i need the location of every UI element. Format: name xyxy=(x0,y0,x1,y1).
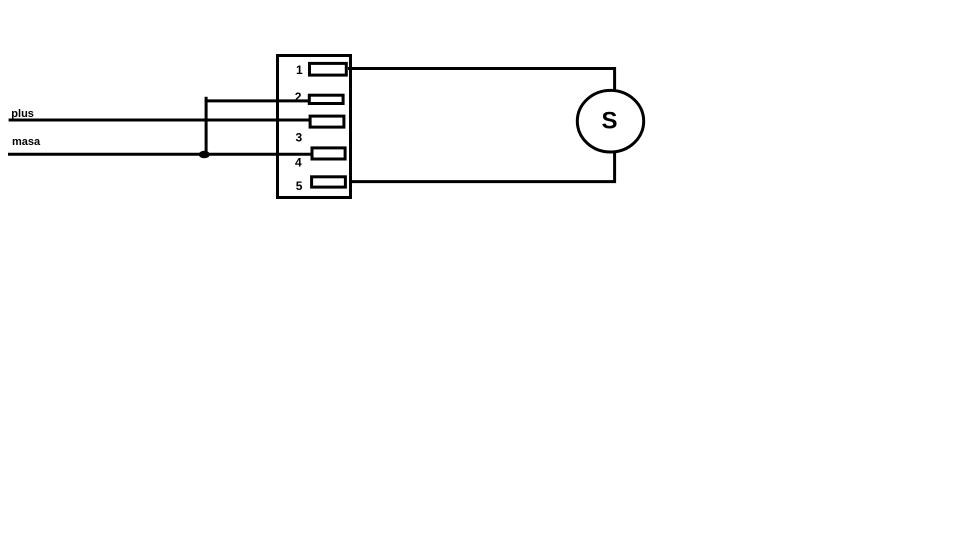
wire motor to pin 5 xyxy=(351,152,615,182)
motor S xyxy=(577,90,643,152)
svg-text:masa: masa xyxy=(12,136,41,148)
connector block J1 xyxy=(278,56,351,198)
pin 5 contact xyxy=(312,177,346,187)
pin 3 contact xyxy=(310,116,344,127)
svg-text:S: S xyxy=(601,108,617,135)
wire branch to pin 2 xyxy=(205,99,310,102)
wire masa xyxy=(8,153,313,156)
pin 4 contact xyxy=(312,148,345,159)
svg-text:5: 5 xyxy=(296,179,303,193)
wire plus xyxy=(9,119,310,122)
svg-text:3: 3 xyxy=(296,131,303,145)
svg-text:plus: plus xyxy=(11,108,34,120)
wire branch vertical from junction up xyxy=(205,97,208,154)
junction dot xyxy=(199,151,210,159)
wire pin 1 to motor xyxy=(348,69,615,91)
svg-text:2: 2 xyxy=(295,90,302,104)
pin 2 contact xyxy=(309,95,343,103)
svg-text:4: 4 xyxy=(295,156,302,170)
svg-text:1: 1 xyxy=(296,63,303,77)
pin 1 contact xyxy=(310,63,347,75)
